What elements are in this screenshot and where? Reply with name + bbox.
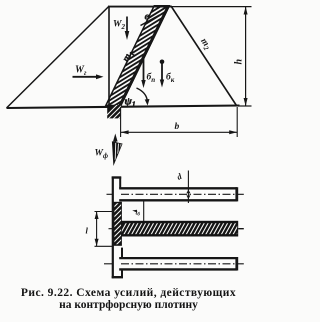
dimension t extension line xyxy=(143,202,145,222)
buttress 3 web top edge xyxy=(119,257,237,259)
buttress 1 centerline xyxy=(107,193,114,195)
svg-text:W2: W2 xyxy=(113,19,125,31)
face slab vertical line (plan) xyxy=(112,177,114,279)
slab foot below base (hatched) xyxy=(100,104,133,122)
buttress 2 hatched head (slab section) xyxy=(111,196,125,250)
caption line 1 xyxy=(2,287,255,299)
label m1 (rotated along slab) xyxy=(120,49,136,65)
slab (hatched upstream face) xyxy=(96,0,175,121)
buttress 1 top cap xyxy=(112,176,122,178)
dimension b line with arrows xyxy=(121,131,238,133)
svg-text:l: l xyxy=(86,226,89,236)
leader line for e xyxy=(141,15,160,26)
buttress 3 web bottom edge xyxy=(119,268,237,270)
dimension d arrows xyxy=(186,190,190,194)
baseline extension at toe for h xyxy=(238,105,252,107)
wire downstream slope m2 xyxy=(171,6,237,106)
buttress 1 head right edge xyxy=(119,177,121,189)
dimension h vertical line xyxy=(245,7,247,106)
svg-text:ψ1: ψ1 xyxy=(125,96,136,109)
arrow Wf uplift (up) xyxy=(114,141,116,148)
slab thick downstream edge xyxy=(120,6,168,106)
buttress 1 web bottom edge xyxy=(119,199,237,201)
dimension d extension line xyxy=(187,171,189,204)
label h (rotated) xyxy=(234,59,245,65)
wire crest line xyxy=(108,6,172,8)
svg-text:бп: бп xyxy=(147,72,156,85)
dimension l: vertical line with arrows xyxy=(96,212,98,247)
label t (tiny) with arrow xyxy=(132,210,137,213)
buttress 1 web top edge xyxy=(119,187,237,189)
wire baseline of dam xyxy=(7,106,240,109)
caption line 2 xyxy=(2,299,255,311)
arrow W2 down xyxy=(126,17,128,33)
arrow Wg right xyxy=(73,76,98,78)
dimension l extension lines xyxy=(95,211,113,213)
svg-text:Wф: Wф xyxy=(95,149,108,161)
svg-text:бк: бк xyxy=(166,72,175,85)
buttress 3 centerline xyxy=(104,263,114,265)
wire water triangle vertical edge xyxy=(108,6,110,106)
dimension b: extension lines xyxy=(120,107,122,137)
buttress 3 head right edge xyxy=(121,269,123,278)
buttress 2 hatched web xyxy=(118,219,249,238)
buttress 1 right end cap xyxy=(235,187,238,201)
arrow Gk down (buttress weight, ball at top) xyxy=(160,60,165,65)
buttress 2 centerline ticks xyxy=(109,228,116,230)
svg-text:h: h xyxy=(234,59,245,65)
uplift pressure triangle (hatched) xyxy=(112,141,123,166)
label m2 (rotated along downstream slope) xyxy=(197,37,213,53)
svg-text:b: b xyxy=(175,122,180,132)
wire water pressure hypotenuse xyxy=(7,6,110,108)
buttress 3 bottom cap xyxy=(112,276,123,278)
svg-text:tб: tб xyxy=(136,210,141,218)
buttress 3 head right edge upper xyxy=(121,248,123,258)
wire crest extension to h dimension xyxy=(172,6,252,8)
svg-text:Wг: Wг xyxy=(75,65,87,78)
label d xyxy=(175,171,184,182)
svg-text:d: d xyxy=(175,171,184,182)
buttress 3 right end cap xyxy=(235,257,238,271)
arrow Gp down (slab weight) xyxy=(143,59,145,82)
